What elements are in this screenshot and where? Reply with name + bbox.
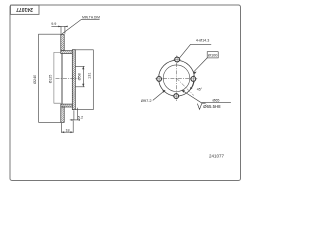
svg-text:Ø97.2: Ø97.2: [141, 98, 152, 103]
bore note leader: [182, 90, 231, 102]
svg-text:45°: 45°: [197, 87, 203, 91]
dim O240 line: [39, 34, 61, 122]
leader MIN.TH.DIM: [62, 19, 100, 34]
svg-text:Ø100: Ø100: [208, 53, 218, 58]
svg-text:9.9: 9.9: [51, 22, 56, 26]
svg-text:MIN.TH.DIM: MIN.TH.DIM: [82, 16, 100, 20]
svg-text:4-Ø14.3: 4-Ø14.3: [196, 38, 209, 42]
bolt hole left: [157, 77, 162, 82]
svg-text:Ø58: Ø58: [78, 73, 82, 80]
leader 4-O14.3: [179, 44, 211, 58]
dim 9.9 thickness: [51, 26, 66, 33]
svg-text:Ø65.5H8: Ø65.5H8: [203, 104, 221, 109]
web edge line: [61, 54, 63, 105]
svg-text:Ø125: Ø125: [48, 75, 52, 84]
svg-text:Ø65: Ø65: [213, 98, 220, 102]
45deg arc dimension: [190, 82, 194, 90]
bore inner circle: [163, 65, 190, 92]
bolt hole right: [191, 77, 196, 82]
O100 leader: [193, 58, 207, 72]
drum cavity silhouette: [54, 52, 61, 103]
svg-text:18: 18: [65, 128, 69, 132]
dim 18 overall width: [61, 121, 73, 133]
svg-text:241077: 241077: [209, 154, 225, 159]
dim O131 line: [76, 50, 94, 110]
dim 5.2: [70, 108, 79, 120]
horizontal centerline: [156, 77, 198, 79]
hat drum wall top section: [61, 51, 73, 54]
section centerline: [56, 78, 79, 80]
friction ring bottom section: [61, 107, 64, 122]
border frame: [10, 5, 241, 181]
mounting flange section: [72, 50, 75, 110]
hat drum wall bottom section: [61, 104, 73, 107]
bolt hole top: [175, 57, 180, 62]
title box top-left: [11, 5, 40, 14]
45deg diagonal centerline: [177, 78, 194, 95]
friction ring top section: [61, 35, 64, 51]
O97.2 leader: [153, 90, 165, 100]
svg-text:Ø240: Ø240: [33, 75, 37, 84]
svg-text:131: 131: [87, 73, 91, 79]
O100 box: [207, 52, 218, 58]
bolt hole bottom: [174, 94, 179, 99]
surface finish symbol: [197, 103, 205, 109]
vertical centerline: [176, 56, 178, 101]
dim O58 bracket: [76, 66, 85, 87]
svg-text:5.2: 5.2: [78, 114, 83, 119]
svg-text:241077: 241077: [16, 6, 33, 12]
hub outer circle: [159, 60, 195, 96]
